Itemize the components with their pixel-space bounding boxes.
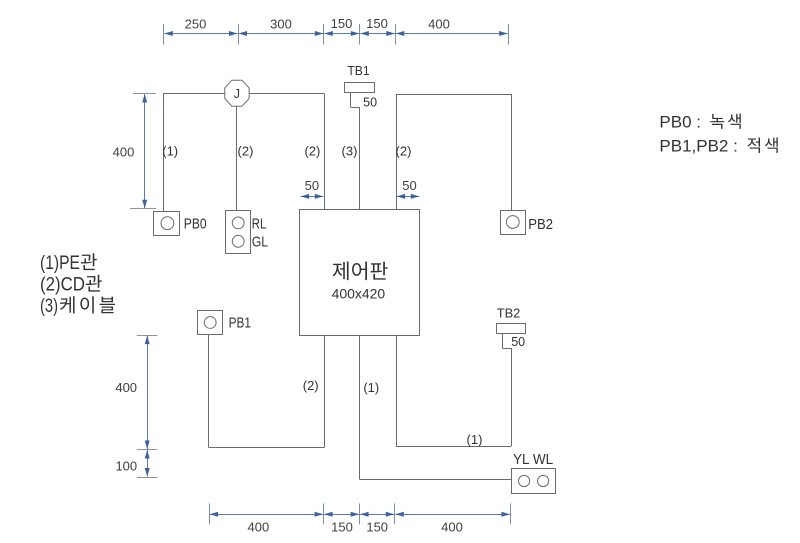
PB2 circle	[506, 216, 519, 229]
svg-text:(2): (2)	[238, 144, 254, 159]
label GL	[252, 234, 268, 251]
label TB1	[347, 63, 369, 78]
bottom dim labels	[248, 520, 463, 535]
label 50 at TB1	[363, 95, 377, 109]
dim 50 left of panel	[301, 194, 324, 199]
wire PB2 drop	[511, 94, 513, 211]
terminal box TB2	[497, 324, 526, 334]
bottom dim ticks	[210, 503, 511, 524]
svg-text:300: 300	[270, 17, 292, 32]
wire PB1 loop	[209, 335, 325, 448]
wire top-right horizontal	[396, 94, 511, 96]
WL circle	[538, 475, 549, 486]
label TB2	[497, 305, 521, 320]
wire top-left horizontal	[163, 93, 324, 95]
label YL WL	[513, 451, 553, 468]
svg-text:150: 150	[331, 16, 353, 31]
label (1) PE conduit	[162, 144, 178, 159]
upper-left dim ticks	[130, 94, 156, 209]
pushbutton PB1 box	[198, 311, 223, 335]
svg-text:(1): (1)	[363, 380, 379, 395]
label 50 at TB2	[511, 335, 525, 349]
svg-text:150: 150	[331, 520, 353, 535]
svg-text:PB1: PB1	[229, 315, 251, 332]
svg-text:PB2: PB2	[528, 216, 553, 233]
PB0 circle	[161, 217, 174, 230]
svg-text:400x420: 400x420	[332, 285, 386, 301]
label (1) lower center	[363, 380, 379, 395]
label (2) left of panel wire	[304, 144, 320, 159]
svg-text:RL: RL	[252, 215, 266, 232]
svg-text:TB1: TB1	[347, 63, 369, 78]
TB2 offset step	[502, 334, 511, 349]
label 400x420	[332, 285, 386, 301]
upper-left dim arrow 400	[142, 94, 147, 208]
wire right (2) drop to panel	[396, 94, 398, 209]
label (2) lower	[303, 378, 319, 393]
svg-text:50: 50	[511, 335, 525, 349]
junction box J octagon	[225, 80, 249, 106]
svg-text:(2)CD: (2)CD	[40, 275, 85, 296]
label PB0	[184, 216, 207, 233]
label (1) lower right	[467, 432, 483, 447]
top dimension labels	[185, 16, 450, 32]
svg-text:400: 400	[441, 520, 463, 535]
label RL	[252, 215, 266, 232]
GL circle	[232, 235, 244, 247]
svg-text:(1): (1)	[162, 144, 178, 159]
svg-text:50: 50	[305, 178, 319, 193]
label PB1	[229, 315, 251, 332]
lower-left dim ticks	[137, 336, 158, 478]
svg-text:150: 150	[366, 520, 388, 535]
pushbutton PB0 box	[154, 212, 180, 236]
wire left (2) drop to panel	[324, 94, 326, 210]
label (2) right panel wire	[396, 144, 412, 159]
label 50 right	[402, 178, 416, 193]
svg-text:100: 100	[115, 459, 137, 474]
upper-left dim label 400	[113, 145, 135, 160]
svg-text:250: 250	[185, 17, 207, 32]
svg-text:400: 400	[115, 380, 137, 395]
terminal box TB1	[345, 83, 375, 93]
svg-text:400: 400	[113, 145, 135, 160]
label control panel (jeeopan)	[333, 262, 388, 281]
svg-text:(1): (1)	[467, 432, 483, 447]
svg-text:J: J	[234, 87, 240, 101]
legend (3) cable	[40, 296, 115, 317]
lamp box RL GL	[226, 211, 251, 254]
RL circle	[232, 217, 244, 229]
svg-text:PB1,PB2 :: PB1,PB2 :	[659, 137, 742, 156]
PB1 circle	[204, 317, 216, 329]
lower-left dim 100	[145, 450, 150, 477]
lamp box YL WL	[512, 469, 556, 494]
svg-text:TB2: TB2	[497, 305, 521, 320]
svg-text:PB0: PB0	[184, 216, 207, 233]
svg-text:(3): (3)	[40, 296, 58, 317]
top dimension arrows 250/300/150/150/400	[164, 31, 507, 36]
wire right loop to TB2	[396, 335, 512, 446]
wire PB0 drop (1)	[163, 94, 165, 212]
svg-text:50: 50	[363, 95, 377, 109]
svg-text:150: 150	[366, 16, 388, 31]
svg-text:(2): (2)	[304, 144, 320, 159]
label 50 left	[305, 178, 319, 193]
wire center to YL WL	[360, 335, 512, 479]
label (2) at J wire	[238, 144, 254, 159]
dim 50 right of panel	[397, 194, 420, 199]
svg-text:GL: GL	[252, 234, 268, 251]
top dimension extension ticks	[164, 24, 509, 45]
legend (1)PE pipe	[40, 253, 97, 274]
TB1 offset step	[351, 92, 360, 107]
svg-text:(3): (3)	[342, 144, 358, 159]
svg-text:(2): (2)	[396, 144, 412, 159]
label PB2	[528, 216, 553, 233]
svg-text:400: 400	[428, 17, 450, 32]
legend (2)CD pipe	[40, 275, 102, 296]
svg-text:50: 50	[402, 178, 416, 193]
svg-text:YL WL: YL WL	[513, 451, 553, 468]
svg-text:(1)PE: (1)PE	[40, 253, 80, 274]
bottom dim arrows	[210, 512, 510, 517]
label (3) cable wire	[342, 144, 358, 159]
lower-left dim 400	[145, 336, 150, 449]
label 400 lower	[115, 380, 137, 395]
note PB0 green	[659, 113, 740, 132]
svg-text:(2): (2)	[303, 378, 319, 393]
wire TB1 drop (3)	[359, 107, 361, 209]
wire J drop (2)	[236, 106, 238, 211]
note PB1 PB2 red	[659, 137, 777, 156]
label J	[234, 87, 240, 101]
control panel box	[300, 210, 420, 336]
pushbutton PB2 box	[501, 211, 526, 235]
YL circle	[519, 475, 530, 486]
svg-text:PB0 :: PB0 :	[659, 113, 705, 132]
label 100 lower	[115, 459, 137, 474]
svg-text:400: 400	[248, 520, 270, 535]
